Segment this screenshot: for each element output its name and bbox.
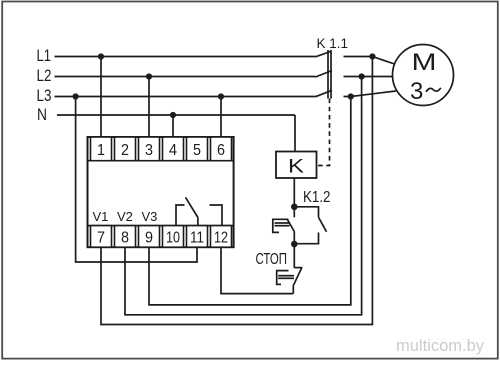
svg-text:L3: L3	[37, 87, 52, 105]
junction motor phase 3	[348, 93, 354, 99]
svg-text:V2: V2	[117, 209, 133, 224]
wire motor phase 1 to pin 7 (V1)	[101, 57, 372, 325]
svg-text:L2: L2	[37, 67, 52, 85]
wire motor phase 3 to pin 9 (V3)	[149, 97, 351, 305]
net N	[37, 106, 295, 124]
svg-text:5: 5	[193, 142, 201, 159]
svg-text:multicom.by: multicom.by	[396, 337, 485, 355]
svg-text:2: 2	[121, 142, 129, 159]
svg-text:K1.2: K1.2	[303, 189, 331, 206]
svg-text:L1: L1	[37, 47, 52, 65]
wire L3 to pin 6	[220, 97, 222, 138]
svg-text:1: 1	[97, 142, 105, 159]
junction L3 left	[73, 93, 79, 99]
push button START	[273, 207, 295, 244]
svg-text:V3: V3	[142, 209, 158, 224]
relay output contact 10-11-12	[176, 197, 222, 225]
junction motor phase 1	[369, 53, 375, 59]
pin 1	[91, 137, 112, 161]
pin 9	[139, 226, 160, 248]
relay unit body	[88, 137, 234, 247]
pin 11	[187, 226, 208, 248]
contactor coil K	[276, 152, 317, 179]
junction start top	[291, 204, 298, 211]
pin 3	[139, 137, 160, 161]
svg-text:M: M	[412, 49, 437, 76]
wire N to pin 4	[172, 115, 174, 138]
svg-text:N: N	[37, 106, 47, 124]
net L2	[37, 67, 316, 85]
svg-text:3: 3	[145, 142, 153, 159]
wire L1 to pin 1	[100, 57, 102, 138]
wire L2 to pin 3	[148, 77, 150, 138]
svg-text:7: 7	[97, 230, 105, 247]
wire K1.1 to motor phase 2	[344, 76, 393, 78]
junction N drop	[170, 112, 176, 118]
svg-text:9: 9	[145, 230, 153, 247]
motor M 3~	[393, 45, 454, 106]
net L1	[37, 47, 316, 65]
svg-text:10: 10	[166, 230, 180, 247]
svg-text:6: 6	[217, 142, 225, 159]
svg-text:K: K	[288, 155, 304, 177]
wire N to coil K	[294, 115, 296, 152]
contactor contact K1.1	[316, 50, 333, 99]
svg-text:K 1.1: K 1.1	[317, 36, 349, 51]
svg-text:12: 12	[214, 230, 228, 247]
pin 4	[163, 137, 184, 161]
junction start bottom	[291, 241, 298, 248]
pin 7	[91, 226, 112, 248]
svg-text:4: 4	[169, 142, 177, 159]
wire STOP to pin 12	[221, 247, 293, 294]
svg-text:3: 3	[410, 78, 423, 105]
wire K1.1 to motor phase 3	[344, 91, 396, 97]
wire K1.1 to motor phase 1	[344, 57, 397, 65]
watermark multicom.by	[395, 337, 485, 356]
wire L3 to pin 11	[76, 97, 197, 263]
pin 2	[115, 137, 136, 161]
junction L3 drop	[218, 93, 224, 99]
wire motor phase 2 to pin 8 (V2)	[125, 77, 362, 315]
svg-text:8: 8	[121, 230, 129, 247]
mechanical link K1.1 to coil (dashed)	[318, 99, 330, 166]
pin 10	[163, 226, 184, 248]
junction L1 drop	[98, 53, 104, 59]
junction motor phase 2	[359, 73, 365, 79]
svg-text:11: 11	[190, 230, 204, 247]
pin 5	[187, 137, 208, 161]
svg-text:V1: V1	[93, 209, 109, 224]
svg-text:СТОП: СТОП	[256, 251, 288, 268]
contact K1.2	[294, 207, 326, 244]
net L3	[37, 87, 316, 105]
pin 12	[211, 226, 232, 248]
push button STOP	[277, 244, 302, 294]
junction L2 drop	[146, 73, 152, 79]
wire coil K to start branch	[293, 178, 295, 207]
pin 8	[115, 226, 136, 248]
pin 6	[211, 137, 232, 161]
